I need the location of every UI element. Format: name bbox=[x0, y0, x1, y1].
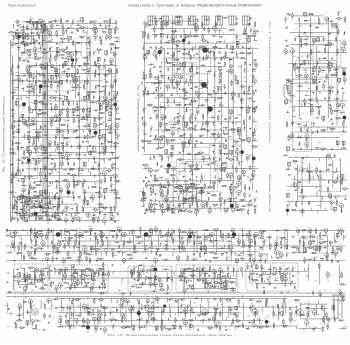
wire bbox=[111, 162, 113, 164]
wire bbox=[26, 162, 29, 164]
wire bbox=[74, 76, 78, 78]
wire bbox=[86, 148, 88, 152]
capacitor C9 bbox=[13, 38, 15, 39]
wire bbox=[92, 199, 94, 202]
wire bbox=[68, 158, 71, 160]
transformer T16 bbox=[60, 80, 63, 84]
resistor R5 bbox=[109, 19, 110, 22]
label text bbox=[12, 170, 14, 173]
wire bbox=[37, 21, 39, 23]
label text bbox=[78, 135, 80, 138]
label text bbox=[16, 34, 18, 37]
label text bbox=[80, 217, 83, 220]
wire bbox=[29, 22, 31, 25]
wire bbox=[27, 97, 30, 99]
ground bbox=[28, 141, 30, 143]
label text bbox=[42, 178, 45, 181]
wire bbox=[90, 21, 92, 23]
capacitor C107 bbox=[22, 26, 23, 28]
wire bbox=[54, 81, 56, 83]
tube V56 bbox=[48, 142, 51, 145]
wire bbox=[55, 60, 57, 62]
resistor R8 bbox=[10, 32, 13, 33]
label text bbox=[99, 99, 101, 102]
inductor L40 bbox=[27, 132, 30, 133]
wire bbox=[114, 107, 116, 109]
capacitor C75 bbox=[93, 158, 95, 159]
resistor R73 bbox=[116, 118, 119, 119]
resistor R134 bbox=[94, 209, 97, 210]
wire bbox=[114, 40, 117, 42]
wire bbox=[78, 117, 80, 121]
wire bbox=[32, 36, 34, 39]
wire bbox=[26, 196, 28, 198]
wire bbox=[78, 75, 80, 171]
ground bbox=[82, 141, 84, 143]
wire bbox=[28, 162, 30, 165]
wire bbox=[29, 111, 31, 113]
wire bbox=[45, 177, 47, 180]
label text bbox=[74, 19, 76, 22]
label text bbox=[113, 100, 116, 103]
wire bbox=[36, 21, 38, 23]
wire bbox=[32, 122, 34, 125]
tube V46 bbox=[22, 119, 26, 123]
wire bbox=[13, 88, 16, 90]
ground bbox=[21, 80, 23, 82]
wire bbox=[17, 133, 19, 135]
wire bbox=[73, 182, 75, 184]
label text bbox=[33, 66, 35, 69]
wire bbox=[73, 168, 75, 170]
tube V20 bbox=[110, 59, 114, 63]
wire bbox=[56, 206, 58, 210]
transformer T44 bbox=[28, 197, 31, 201]
ground bbox=[71, 31, 73, 33]
wire bbox=[57, 56, 59, 58]
wire bbox=[93, 101, 96, 103]
tube V3 bbox=[50, 24, 53, 27]
resistor R97 bbox=[45, 157, 48, 158]
capacitor C117 bbox=[24, 202, 26, 203]
transformer T5 bbox=[56, 52, 59, 56]
inductor L6 bbox=[77, 43, 80, 44]
label text bbox=[42, 19, 45, 22]
wire bbox=[76, 104, 78, 107]
wire bbox=[23, 106, 25, 108]
wire bbox=[104, 182, 106, 184]
label text bbox=[52, 167, 53, 170]
wire bbox=[76, 82, 78, 84]
wire bbox=[82, 186, 84, 188]
wire bbox=[23, 45, 25, 47]
tube V66 bbox=[61, 156, 64, 159]
resistor R11 bbox=[56, 32, 57, 35]
inductor L31 bbox=[93, 96, 94, 99]
capacitor C6 bbox=[105, 26, 107, 27]
wire bbox=[25, 168, 119, 170]
resistor R70 bbox=[73, 119, 74, 122]
label text bbox=[94, 134, 97, 137]
wire bbox=[86, 146, 88, 149]
wire bbox=[99, 139, 101, 141]
wire bbox=[62, 67, 64, 69]
wire bbox=[72, 101, 74, 105]
wire bbox=[41, 103, 43, 105]
ground bbox=[35, 39, 37, 41]
capacitor C102 bbox=[62, 213, 64, 214]
tube V33 bbox=[110, 84, 114, 88]
wire bbox=[59, 93, 61, 96]
label text bbox=[115, 188, 117, 191]
label text bbox=[61, 27, 63, 30]
wire bbox=[41, 27, 43, 30]
wire bbox=[26, 41, 92, 43]
transformer T36 bbox=[44, 147, 47, 151]
label text bbox=[20, 23, 22, 26]
tube V7 bbox=[17, 35, 21, 39]
wire bbox=[32, 90, 34, 92]
tube V32 bbox=[75, 84, 79, 88]
transformer T8 bbox=[40, 64, 43, 68]
wire bbox=[40, 171, 42, 173]
label text bbox=[59, 108, 61, 111]
node bbox=[88, 141, 89, 142]
wire bbox=[28, 65, 30, 202]
label text bbox=[68, 119, 70, 122]
wire bbox=[30, 49, 32, 51]
resistor R127 bbox=[83, 201, 84, 204]
wire bbox=[62, 34, 64, 36]
capacitor C71 bbox=[114, 146, 116, 147]
resistor R92 bbox=[24, 152, 25, 155]
wire bbox=[35, 70, 37, 147]
label text bbox=[76, 71, 78, 74]
wire bbox=[87, 138, 89, 140]
wire bbox=[24, 36, 28, 38]
wire bbox=[89, 172, 91, 176]
transformer T41 bbox=[44, 190, 47, 194]
label text bbox=[33, 138, 34, 141]
label text bbox=[103, 143, 104, 146]
label text bbox=[78, 170, 80, 173]
wire bbox=[41, 149, 43, 151]
wire bbox=[44, 123, 46, 126]
wire bbox=[41, 34, 43, 37]
wire bbox=[77, 184, 80, 186]
node bbox=[106, 126, 107, 127]
wire bbox=[109, 129, 111, 132]
capacitor C72 bbox=[93, 151, 94, 153]
wire bbox=[80, 42, 82, 45]
wire bbox=[57, 133, 59, 136]
transformer T46 bbox=[86, 201, 89, 205]
wire bbox=[97, 99, 100, 101]
wire bbox=[68, 195, 70, 197]
wire bbox=[27, 151, 29, 153]
wire bbox=[40, 176, 42, 178]
resistor R67 bbox=[43, 112, 46, 113]
label text bbox=[83, 187, 85, 190]
capacitor C16 bbox=[49, 49, 51, 50]
wire bbox=[51, 110, 53, 113]
wire bbox=[16, 199, 18, 202]
inductor L39 bbox=[88, 124, 89, 127]
resistor R150 bbox=[15, 201, 16, 204]
wire bbox=[105, 27, 107, 30]
label text bbox=[66, 150, 67, 153]
label text bbox=[14, 203, 16, 206]
wire bbox=[19, 48, 21, 50]
wire bbox=[38, 79, 40, 82]
wire bbox=[48, 81, 51, 83]
wire bbox=[23, 40, 25, 43]
capacitor C21 bbox=[38, 58, 39, 60]
node bbox=[11, 148, 12, 149]
transformer T13 bbox=[55, 73, 58, 77]
label text bbox=[50, 86, 52, 89]
wire bbox=[35, 151, 37, 154]
transformer T47 bbox=[16, 35, 19, 39]
wire bbox=[100, 182, 102, 185]
wire bbox=[33, 214, 35, 216]
node bbox=[55, 120, 56, 121]
capacitor C80 bbox=[45, 176, 47, 177]
wire bbox=[51, 107, 53, 110]
label text bbox=[26, 121, 28, 124]
label text bbox=[29, 207, 31, 210]
wire bbox=[103, 138, 105, 140]
resistor R138 bbox=[76, 212, 79, 213]
label text bbox=[43, 163, 46, 166]
label text bbox=[80, 167, 83, 170]
block A bus wire bbox=[46, 26, 48, 206]
transformer T43 bbox=[18, 196, 21, 200]
capacitor C90 bbox=[72, 193, 74, 194]
wire bbox=[50, 121, 52, 123]
wire bbox=[33, 195, 35, 197]
tube V79 bbox=[91, 195, 95, 199]
inductor L48 bbox=[21, 147, 24, 148]
wire bbox=[67, 123, 69, 126]
label text bbox=[10, 139, 12, 142]
wire bbox=[29, 108, 88, 110]
wire bbox=[113, 189, 116, 191]
wire bbox=[42, 25, 44, 27]
tube V22 bbox=[50, 65, 53, 68]
tube V23 bbox=[96, 63, 100, 67]
label text bbox=[35, 184, 38, 187]
label text bbox=[21, 148, 23, 151]
label text bbox=[104, 208, 107, 211]
capacitor C65 bbox=[77, 137, 78, 139]
label text bbox=[36, 150, 38, 153]
wire bbox=[34, 39, 36, 42]
wire bbox=[54, 198, 56, 200]
wire bbox=[97, 221, 99, 223]
wire bbox=[54, 193, 56, 195]
label text bbox=[80, 98, 82, 101]
resistor R76 bbox=[51, 123, 52, 126]
wire bbox=[33, 109, 37, 111]
ground bbox=[12, 132, 14, 134]
capacitor C40 bbox=[100, 91, 101, 93]
capacitor C45 bbox=[92, 101, 93, 103]
wire bbox=[12, 174, 14, 176]
wire bbox=[70, 24, 72, 28]
wire bbox=[84, 195, 86, 197]
wire bbox=[63, 54, 66, 56]
wire bbox=[97, 68, 99, 70]
resistor R19 bbox=[89, 41, 90, 44]
wire bbox=[29, 22, 116, 24]
label text bbox=[44, 83, 46, 86]
ground bbox=[55, 103, 57, 105]
wire bbox=[33, 93, 35, 95]
wire bbox=[73, 82, 75, 84]
wire bbox=[38, 33, 40, 35]
label text bbox=[92, 156, 94, 159]
label text bbox=[97, 125, 99, 128]
capacitor C18 bbox=[76, 53, 78, 54]
node bbox=[33, 158, 34, 159]
ground bbox=[35, 131, 37, 133]
wire bbox=[70, 208, 72, 210]
label text bbox=[33, 205, 36, 208]
resistor R6 bbox=[62, 25, 63, 28]
node bbox=[90, 197, 91, 198]
ground bbox=[38, 196, 40, 198]
resistor R142 bbox=[27, 21, 30, 22]
wire bbox=[98, 206, 101, 208]
wire bbox=[25, 21, 27, 23]
wire bbox=[51, 28, 53, 30]
wire bbox=[62, 133, 64, 137]
wire bbox=[28, 43, 31, 45]
wire bbox=[99, 195, 101, 197]
label text bbox=[97, 61, 99, 64]
wire bbox=[114, 210, 116, 212]
wire bbox=[38, 38, 40, 40]
inductor L3 bbox=[33, 24, 34, 27]
label text bbox=[83, 87, 86, 90]
label text bbox=[29, 66, 31, 69]
wire bbox=[73, 199, 75, 202]
label text bbox=[104, 92, 107, 95]
wire bbox=[115, 45, 117, 206]
wire bbox=[38, 195, 40, 197]
wire bbox=[110, 176, 112, 178]
capacitor C26 bbox=[36, 65, 37, 67]
label text bbox=[11, 67, 12, 70]
capacitor C33 bbox=[13, 80, 14, 82]
wire bbox=[56, 128, 58, 130]
wire bbox=[45, 202, 48, 204]
resistor R135 bbox=[103, 207, 106, 208]
wire bbox=[44, 84, 46, 86]
wire bbox=[52, 169, 55, 171]
wire bbox=[67, 188, 69, 191]
resistor R74 bbox=[27, 125, 30, 126]
label text bbox=[112, 183, 115, 186]
wire bbox=[78, 170, 80, 173]
wire bbox=[29, 111, 32, 113]
wire bbox=[89, 198, 91, 200]
wire bbox=[87, 186, 89, 188]
wire bbox=[33, 93, 35, 96]
wire bbox=[24, 203, 26, 206]
wire bbox=[101, 143, 105, 145]
resistor R91 bbox=[11, 152, 14, 153]
wire bbox=[84, 200, 86, 202]
wire bbox=[89, 36, 91, 139]
wire bbox=[76, 206, 78, 208]
wire bbox=[65, 52, 67, 54]
wire bbox=[79, 24, 82, 26]
wire bbox=[40, 209, 42, 211]
resistor R81 bbox=[65, 138, 68, 139]
label text bbox=[31, 23, 33, 26]
wire bbox=[16, 105, 18, 107]
capacitor C88 bbox=[110, 186, 112, 187]
wire bbox=[15, 30, 17, 33]
node bbox=[100, 25, 101, 26]
wire bbox=[99, 22, 101, 26]
wire bbox=[92, 166, 94, 169]
wire bbox=[85, 180, 87, 182]
wire bbox=[46, 103, 48, 105]
wire bbox=[31, 203, 33, 206]
label text bbox=[38, 114, 40, 117]
transformer T2 bbox=[43, 24, 46, 28]
wire bbox=[42, 68, 45, 70]
label text bbox=[94, 210, 96, 213]
wire bbox=[28, 116, 30, 119]
wire bbox=[46, 52, 48, 54]
wire bbox=[26, 78, 28, 81]
wire bbox=[55, 137, 57, 139]
wire bbox=[74, 184, 77, 186]
wire bbox=[18, 32, 20, 34]
wire bbox=[34, 65, 118, 67]
wire bbox=[106, 207, 108, 209]
inductor L13 bbox=[104, 59, 105, 62]
label text bbox=[59, 153, 62, 156]
wire bbox=[111, 152, 113, 153]
wire bbox=[57, 51, 59, 52]
wire bbox=[55, 96, 58, 98]
wire bbox=[105, 86, 108, 88]
wire bbox=[33, 41, 35, 44]
label text bbox=[68, 104, 70, 107]
capacitor C58 bbox=[85, 125, 86, 127]
transformer T10 bbox=[54, 68, 57, 72]
resistor R32 bbox=[55, 57, 56, 60]
wire bbox=[17, 145, 19, 147]
wire bbox=[103, 112, 105, 114]
wire bbox=[94, 60, 96, 62]
wire bbox=[59, 190, 61, 192]
wire bbox=[30, 20, 32, 23]
wire bbox=[22, 205, 44, 207]
wire bbox=[42, 85, 44, 87]
label text bbox=[82, 209, 84, 212]
wire bbox=[47, 85, 49, 87]
wire bbox=[57, 143, 59, 145]
tube V25 bbox=[87, 68, 91, 72]
capacitor C74 bbox=[67, 158, 68, 160]
wire bbox=[78, 220, 80, 223]
